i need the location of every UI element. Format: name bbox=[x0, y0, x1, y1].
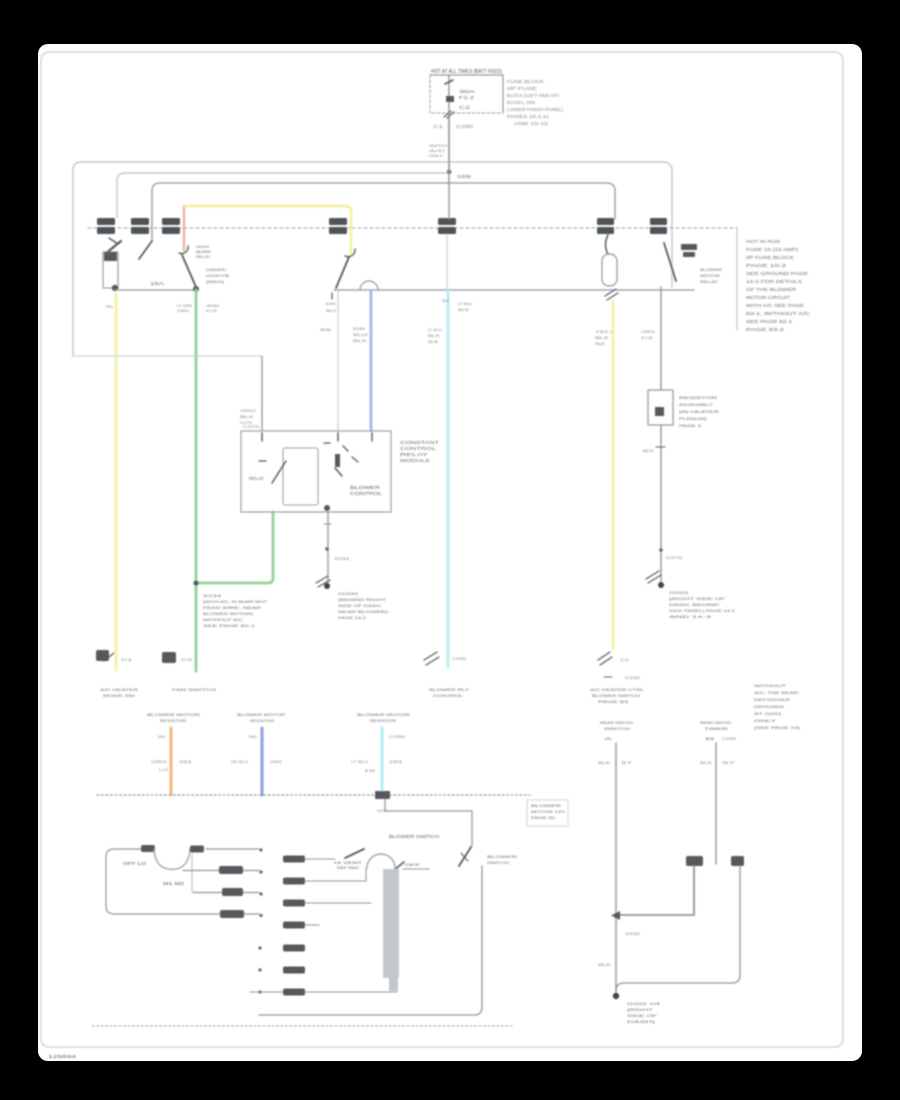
svg-text:ONLY: ONLY bbox=[429, 153, 443, 158]
svg-text:LO: LO bbox=[159, 767, 168, 772]
svg-text:SWITCH: SWITCH bbox=[604, 726, 630, 731]
svg-text:BLK: BLK bbox=[240, 414, 255, 419]
wire bus line3 bbox=[152, 183, 615, 240]
switch SW6 feed arm bbox=[459, 847, 471, 866]
svg-text:52: 52 bbox=[595, 341, 607, 346]
svg-text:CONSTANT: CONSTANT bbox=[400, 440, 440, 445]
dotted line bottom bbox=[92, 1025, 512, 1027]
wire lt blue long bbox=[447, 291, 450, 667]
wire below resistor bbox=[660, 425, 662, 583]
node G dot bbox=[324, 583, 330, 589]
svg-text:BLOWER MOTOR: BLOWER MOTOR bbox=[147, 712, 200, 717]
svg-text:(MAXI): (MAXI) bbox=[206, 279, 225, 284]
svg-text:C2: C2 bbox=[206, 308, 219, 313]
svg-text:OFF: OFF bbox=[405, 863, 421, 867]
relay module top pins bbox=[262, 433, 372, 441]
wire lt blue resistor 3 bbox=[381, 728, 384, 795]
svg-text:OF THE BLOWER: OF THE BLOWER bbox=[746, 287, 796, 292]
wire gray to relay module bbox=[337, 291, 339, 431]
wire gray column 2 bbox=[715, 743, 717, 864]
svg-text:PAGE 62: PAGE 62 bbox=[531, 815, 556, 820]
wire pin row 2 bbox=[305, 868, 366, 881]
svg-text:B: B bbox=[705, 736, 716, 741]
svg-text:BLOWER: BLOWER bbox=[350, 485, 380, 490]
relay pin marks cluster bbox=[324, 442, 330, 444]
svg-text:C250: C250 bbox=[452, 656, 467, 661]
svg-text:SEE GROUND PAGE: SEE GROUND PAGE bbox=[746, 271, 808, 276]
svg-text:65: 65 bbox=[320, 327, 333, 332]
connector hash yellow right end bbox=[598, 652, 612, 665]
wire pin row 3 bbox=[305, 902, 371, 904]
ground bus dotted line bbox=[97, 794, 530, 796]
svg-text:BLOWER MOTOR): BLOWER MOTOR) bbox=[203, 611, 254, 616]
svg-text:BLK: BLK bbox=[428, 333, 441, 338]
svg-text:DEFOGGER: DEFOGGER bbox=[754, 697, 790, 702]
svg-text:FUSE 10 (15 AMP): FUSE 10 (15 AMP) bbox=[746, 247, 799, 252]
svg-text:WITHOUT: WITHOUT bbox=[754, 683, 787, 688]
bar row D bbox=[220, 910, 244, 918]
svg-text:RELAY: RELAY bbox=[400, 452, 428, 457]
svg-text:LT BLU: LT BLU bbox=[428, 327, 442, 332]
connector on bus under cyan bbox=[375, 791, 390, 799]
wire pin left bbox=[616, 866, 694, 915]
node bottom pin dot bbox=[324, 505, 330, 511]
svg-text:(IN HEATER: (IN HEATER bbox=[679, 409, 719, 414]
wire row A bbox=[206, 848, 259, 850]
svg-text:C2: C2 bbox=[620, 657, 630, 662]
svg-text:54: 54 bbox=[428, 339, 440, 344]
wire feed to blower switch bbox=[385, 799, 472, 846]
svg-text:SIDE OF DASH,: SIDE OF DASH, bbox=[338, 603, 382, 608]
fuse F2.10 element bbox=[445, 80, 453, 84]
wire from fuse box bbox=[448, 75, 450, 172]
svg-text:ASSEMBLY: ASSEMBLY bbox=[679, 402, 714, 407]
relay contact arm inside bbox=[272, 461, 286, 483]
wire yellow top bbox=[185, 206, 351, 253]
svg-text:G201: G201 bbox=[669, 590, 691, 595]
svg-text:262: 262 bbox=[270, 759, 283, 764]
relay module box U1 bbox=[241, 431, 391, 512]
svg-text:BLOWER RLY: BLOWER RLY bbox=[429, 687, 470, 692]
svg-text:ORG/: ORG/ bbox=[240, 408, 257, 413]
svg-text:DEF MAX: DEF MAX bbox=[337, 866, 360, 870]
svg-text:RELAY: RELAY bbox=[700, 279, 718, 284]
connector hash on center wire bbox=[316, 576, 330, 587]
svg-text:PAGE 10-2: PAGE 10-2 bbox=[746, 263, 787, 268]
svg-text:HI VENT: HI VENT bbox=[334, 861, 363, 865]
svg-text:A: A bbox=[604, 736, 613, 741]
svg-text:263: 263 bbox=[389, 759, 403, 764]
svg-text:REAR DEFOG: REAR DEFOG bbox=[600, 720, 633, 725]
svg-text:C2: C2 bbox=[641, 335, 655, 340]
svg-text:DK BLU: DK BLU bbox=[231, 759, 248, 764]
wire dk blue to relay module bbox=[370, 292, 373, 431]
svg-text:14-2 FOR DETAILS: 14-2 FOR DETAILS bbox=[746, 279, 802, 284]
switch SW2 contact arc bbox=[179, 246, 188, 254]
wire hot feed bus line1 with loop bbox=[73, 162, 672, 356]
svg-text:BLK: BLK bbox=[353, 338, 368, 343]
wire blue resistor 2 bbox=[261, 728, 264, 795]
svg-text:A/C, THE REAR: A/C, THE REAR bbox=[754, 690, 798, 695]
svg-text:BLOWER MOTOR: BLOWER MOTOR bbox=[237, 712, 285, 717]
bracket line to legend bbox=[736, 228, 738, 330]
svg-text:BLOWER MOTOR: BLOWER MOTOR bbox=[357, 712, 410, 717]
resistor capsule component bbox=[602, 254, 617, 286]
connector C120 bbox=[162, 218, 180, 225]
rotary hump arc right bbox=[367, 854, 395, 868]
svg-text:LT BLU: LT BLU bbox=[351, 759, 368, 764]
svg-text:YEL: YEL bbox=[105, 304, 115, 309]
svg-text:MOTOR: MOTOR bbox=[700, 273, 720, 278]
svg-text:BLOWER: BLOWER bbox=[700, 267, 722, 272]
svg-text:ORG: ORG bbox=[151, 759, 167, 764]
svg-text:BLK: BLK bbox=[700, 760, 713, 765]
blower switch body rounded box bbox=[106, 849, 259, 914]
svg-text:S430: S430 bbox=[625, 931, 641, 936]
svg-text:S234: S234 bbox=[203, 593, 222, 598]
svg-text:63-1, WITHOUT A/C: 63-1, WITHOUT A/C bbox=[746, 311, 810, 316]
wire across relay output bbox=[115, 289, 196, 291]
connector C130 bbox=[329, 218, 347, 225]
wire row C bbox=[193, 892, 259, 894]
svg-text:SIDE OF: SIDE OF bbox=[627, 1013, 658, 1018]
svg-text:DK: DK bbox=[326, 301, 337, 306]
svg-text:(SEE PAGE 14): (SEE PAGE 14) bbox=[754, 725, 801, 730]
node S234 dot bbox=[193, 580, 198, 585]
svg-text:C270: C270 bbox=[243, 424, 260, 429]
svg-text:HOT IN RUN: HOT IN RUN bbox=[746, 239, 780, 244]
svg-text:KICK PANEL) PAGE 14-2: KICK PANEL) PAGE 14-2 bbox=[669, 608, 736, 613]
wire return loop bbox=[259, 866, 482, 1015]
junction arrow bbox=[611, 911, 620, 920]
svg-text:CONTROL: CONTROL bbox=[350, 491, 383, 496]
svg-text:RESISTOR: RESISTOR bbox=[160, 718, 186, 723]
switch SW3 contact arc bbox=[345, 249, 355, 257]
svg-text:BLK: BLK bbox=[598, 962, 612, 967]
relay module inner coil box bbox=[283, 448, 318, 505]
svg-text:RESISTOR: RESISTOR bbox=[250, 718, 274, 723]
connector hash yellow left end bbox=[96, 650, 109, 661]
svg-text:ONLY: ONLY bbox=[754, 718, 777, 723]
svg-text:FEED WIRE, NEAR: FEED WIRE, NEAR bbox=[203, 605, 261, 610]
svg-text:SWITCH: SWITCH bbox=[487, 860, 509, 865]
wire bus line2 bbox=[117, 173, 449, 218]
svg-text:C250: C250 bbox=[625, 675, 641, 680]
switch wiper contact 2 bbox=[190, 846, 204, 853]
wire green long bbox=[195, 290, 198, 671]
svg-text:HOOD P/B: HOOD P/B bbox=[206, 273, 229, 278]
svg-text:RESISTOR: RESISTOR bbox=[370, 718, 396, 723]
connector C260 bbox=[597, 218, 614, 225]
node green junction bbox=[193, 286, 199, 292]
connector C100 on firewall line bbox=[97, 218, 667, 234]
svg-text:G202: G202 bbox=[627, 1001, 649, 1006]
relay body left fuse holder bbox=[103, 252, 118, 288]
svg-text:BLK: BLK bbox=[643, 448, 654, 453]
node ground dot right bbox=[658, 582, 664, 588]
connector C265 bbox=[650, 218, 667, 225]
switch SW2 arm bbox=[182, 255, 196, 287]
connector green end bbox=[162, 652, 176, 663]
svg-text:CONTROL: CONTROL bbox=[400, 446, 437, 451]
svg-text:H4: H4 bbox=[650, 1001, 661, 1006]
svg-text:UNDER-: UNDER- bbox=[206, 267, 228, 272]
wire main collector y290 bbox=[334, 289, 694, 291]
svg-text:MODULE: MODULE bbox=[400, 458, 430, 463]
svg-text:I/P FUSE BLOCK: I/P FUSE BLOCK bbox=[746, 255, 794, 260]
wire gray down right bbox=[660, 287, 662, 390]
connector hash yellow top bbox=[605, 289, 618, 300]
svg-text:RESISTOR: RESISTOR bbox=[679, 395, 717, 400]
thick bus bar bbox=[383, 869, 399, 978]
svg-text:S251: S251 bbox=[334, 556, 351, 561]
svg-text:GROUNDS: GROUNDS bbox=[754, 704, 784, 709]
svg-text:C1: C1 bbox=[433, 124, 444, 129]
svg-text:MOTOR 12V: MOTOR 12V bbox=[531, 809, 565, 814]
svg-text:A/C HEATER: A/C HEATER bbox=[100, 687, 138, 692]
svg-text:OFF LO: OFF LO bbox=[123, 861, 147, 866]
node ground dot G bbox=[613, 993, 619, 999]
inline resistor box bbox=[648, 390, 673, 425]
svg-text:125694: 125694 bbox=[48, 1054, 77, 1059]
svg-text:REAR DEFOG: REAR DEFOG bbox=[700, 720, 731, 725]
svg-text:HOT AT ALL TIMES (BATT FEED): HOT AT ALL TIMES (BATT FEED) bbox=[431, 69, 502, 75]
wire pin row 4 bbox=[305, 924, 319, 926]
connector blobs wire2 bottom bbox=[686, 856, 703, 866]
wire pin right loop bbox=[616, 866, 740, 993]
svg-text:BLOWER SWITCH: BLOWER SWITCH bbox=[592, 693, 640, 698]
connector C1 below fuse box bbox=[444, 111, 454, 118]
switch SW4 arm right capsule bbox=[606, 235, 609, 254]
fuse value marks bbox=[681, 244, 697, 250]
svg-text:LT BLU: LT BLU bbox=[458, 301, 472, 306]
svg-text:ORG: ORG bbox=[641, 329, 655, 334]
svg-text:M2: M2 bbox=[249, 734, 258, 739]
svg-text:C250: C250 bbox=[456, 124, 474, 129]
node S206 junction bbox=[447, 170, 452, 175]
svg-text:C2: C2 bbox=[181, 657, 194, 662]
switch SW1 arm bbox=[139, 241, 152, 259]
svg-text:YEL/: YEL/ bbox=[595, 329, 614, 334]
svg-text:(RIGHT SIDE OF: (RIGHT SIDE OF bbox=[669, 596, 726, 601]
svg-text:BLK: BLK bbox=[598, 760, 611, 765]
connector hash cyan end bbox=[424, 652, 439, 665]
svg-text:WITHOUT A/C: WITHOUT A/C bbox=[203, 617, 243, 622]
svg-text:(BEHIND RIGHT: (BEHIND RIGHT bbox=[338, 597, 387, 602]
wire gray below C250 bbox=[446, 235, 448, 290]
svg-text:54: 54 bbox=[442, 298, 450, 303]
switch SW5 arm bbox=[664, 243, 676, 281]
wire gray column 1 bbox=[615, 743, 617, 995]
connector pin dots column bbox=[258, 848, 262, 993]
wire from fuse to connector C250 bbox=[448, 113, 450, 219]
switch wiper contact 1 bbox=[141, 845, 155, 852]
svg-text:LOWER FINISH PANEL): LOWER FINISH PANEL) bbox=[507, 107, 564, 112]
svg-text:AND 14-3: AND 14-3 bbox=[669, 614, 713, 619]
svg-text:C270: C270 bbox=[666, 555, 683, 560]
svg-text:261: 261 bbox=[179, 759, 193, 764]
fuse block box bbox=[430, 75, 503, 113]
wire relay output center bbox=[327, 512, 329, 585]
connector bars column bbox=[283, 856, 305, 996]
svg-text:BLOWER SWITCH: BLOWER SWITCH bbox=[389, 834, 439, 839]
svg-text:S206: S206 bbox=[457, 174, 472, 179]
fusible link arrow bbox=[105, 241, 121, 254]
wire yellow left long bbox=[115, 294, 118, 670]
svg-text:MOTOR CIRCUIT: MOTOR CIRCUIT bbox=[746, 295, 791, 300]
dashed firewall line bbox=[88, 227, 737, 229]
wire pin row 8 bbox=[250, 991, 397, 993]
svg-text:RELAY: RELAY bbox=[196, 254, 210, 259]
svg-text:SEE PAGE 62-1: SEE PAGE 62-1 bbox=[203, 623, 256, 628]
svg-text:AND 10-12: AND 10-12 bbox=[514, 121, 549, 126]
svg-text:HI: HI bbox=[365, 768, 375, 773]
svg-text:TIMER: TIMER bbox=[704, 726, 728, 731]
wiper marks right of hump bbox=[393, 862, 404, 871]
svg-text:BLU: BLU bbox=[326, 308, 336, 313]
svg-text:57: 57 bbox=[621, 760, 634, 765]
svg-text:DASH, ON: DASH, ON bbox=[507, 100, 535, 105]
svg-text:AT G201: AT G201 bbox=[754, 711, 783, 716]
wire yellow right long bbox=[612, 301, 615, 649]
wiper marks left of hump bbox=[345, 849, 364, 858]
svg-text:M1 M2: M1 M2 bbox=[163, 881, 185, 886]
svg-text:WITH A/C SEE PAGE: WITH A/C SEE PAGE bbox=[746, 303, 804, 308]
svg-text:C2: C2 bbox=[459, 105, 471, 110]
svg-text:PAGE 3: PAGE 3 bbox=[679, 423, 702, 428]
svg-text:I/P FUSE: I/P FUSE bbox=[507, 86, 537, 91]
wire red feed bbox=[183, 206, 185, 250]
svg-text:PLENUM): PLENUM) bbox=[679, 416, 708, 421]
svg-text:BLOCK (LEFT SIDE OF): BLOCK (LEFT SIDE OF) bbox=[507, 93, 560, 98]
connector C250 bbox=[438, 218, 456, 225]
svg-text:FUSE BLOCK: FUSE BLOCK bbox=[507, 79, 544, 84]
node junction blob left bbox=[112, 285, 118, 291]
wire orange resistor 1 bbox=[170, 728, 173, 795]
svg-text:SEE PAGE 62-1: SEE PAGE 62-1 bbox=[746, 319, 793, 324]
svg-text:PAGE 63: PAGE 63 bbox=[598, 699, 629, 704]
svg-text:M1: M1 bbox=[158, 734, 167, 739]
svg-text:DASH): DASH) bbox=[627, 1019, 656, 1024]
svg-text:C250: C250 bbox=[389, 734, 406, 739]
svg-text:BLOWER: BLOWER bbox=[487, 854, 517, 859]
wire green branch from relay bbox=[197, 512, 273, 583]
svg-text:BLK: BLK bbox=[595, 335, 610, 340]
svg-text:G200: G200 bbox=[338, 591, 360, 596]
svg-text:(RIGHT: (RIGHT bbox=[627, 1007, 654, 1012]
svg-text:NEAR BLOWER): NEAR BLOWER) bbox=[338, 609, 389, 614]
svg-text:15A: 15A bbox=[150, 281, 164, 286]
svg-text:57: 57 bbox=[722, 760, 737, 765]
svg-text:ORG: ORG bbox=[177, 308, 189, 313]
connector hash right wire bbox=[646, 571, 661, 583]
switch SW3 arm bbox=[336, 257, 349, 288]
rotary dip arc bbox=[154, 849, 190, 870]
connector bump for blue wire bbox=[360, 281, 378, 290]
svg-text:BLU/: BLU/ bbox=[353, 332, 369, 337]
svg-text:BLK: BLK bbox=[458, 307, 469, 312]
wire row B bbox=[183, 870, 259, 872]
wire from bus to relay box left bbox=[73, 355, 262, 357]
svg-text:CONTROL: CONTROL bbox=[433, 693, 464, 698]
wire vertical link bbox=[191, 853, 193, 892]
label box at bus end bbox=[527, 800, 568, 826]
svg-text:C250: C250 bbox=[722, 736, 737, 741]
svg-text:DASH, BEHIND: DASH, BEHIND bbox=[669, 602, 719, 607]
pin marks below switch SW3 bbox=[331, 293, 333, 299]
svg-text:BLOWER: BLOWER bbox=[531, 803, 561, 808]
svg-text:FAN SWITCH: FAN SWITCH bbox=[172, 687, 216, 692]
svg-text:F2.2: F2.2 bbox=[459, 95, 475, 100]
svg-text:DK: DK bbox=[353, 326, 367, 331]
connector C110 bbox=[131, 218, 149, 225]
svg-text:PAGES 10-2,11: PAGES 10-2,11 bbox=[507, 114, 550, 119]
svg-text:30A: 30A bbox=[459, 89, 475, 94]
svg-text:C1: C1 bbox=[121, 657, 134, 662]
svg-text:RELAY: RELAY bbox=[249, 476, 264, 481]
wire pin row 1 bbox=[305, 858, 335, 860]
svg-text:PAGE 14-2: PAGE 14-2 bbox=[338, 615, 367, 620]
svg-text:(WITH A/C, IN BLWR MOT: (WITH A/C, IN BLWR MOT bbox=[203, 599, 268, 604]
svg-text:MODE SW: MODE SW bbox=[103, 693, 135, 698]
svg-text:A/C HEATER CTRL: A/C HEATER CTRL bbox=[590, 687, 645, 692]
svg-text:PAGE 63-2: PAGE 63-2 bbox=[746, 327, 785, 332]
